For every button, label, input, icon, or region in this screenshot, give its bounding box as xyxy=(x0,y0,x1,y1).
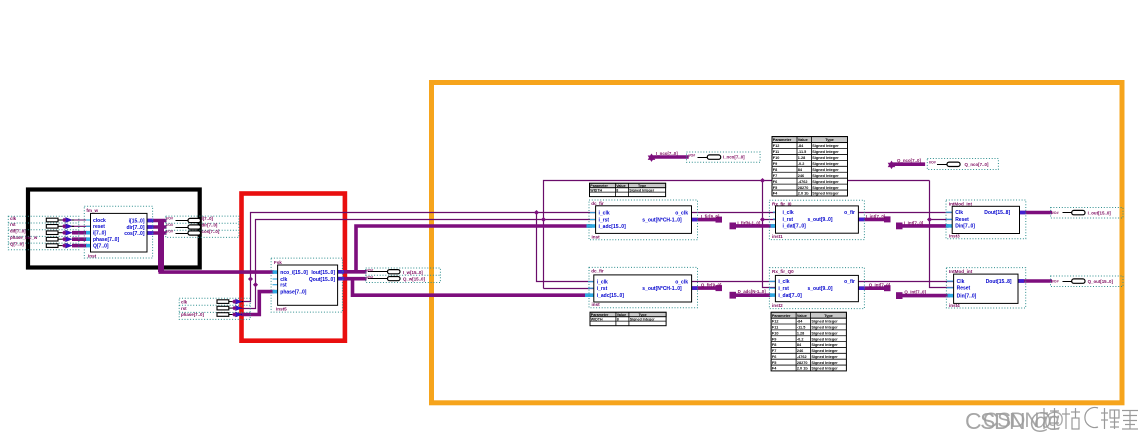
svg-text:phase[7..0]: phase[7..0] xyxy=(181,312,204,317)
svg-text:Signed Integer: Signed Integer xyxy=(811,337,838,341)
svg-text:I/O#: I/O# xyxy=(166,223,173,227)
svg-text:1.28: 1.28 xyxy=(797,331,804,335)
svg-text:I/O#: I/O# xyxy=(367,268,374,272)
svg-text:8: 8 xyxy=(616,188,618,192)
svg-text:rst: rst xyxy=(10,222,16,227)
svg-text:clk: clk xyxy=(181,299,188,304)
svg-text:i_clk: i_clk xyxy=(783,210,794,216)
svg-text:I_w[15..0]: I_w[15..0] xyxy=(403,270,423,275)
svg-text:i_dat[7..0]: i_dat[7..0] xyxy=(783,224,807,230)
svg-text:Q_nco[7..0]: Q_nco[7..0] xyxy=(897,158,921,163)
svg-text:Signed Integer: Signed Integer xyxy=(811,343,838,347)
svg-text:cos[7..0]: cos[7..0] xyxy=(202,229,220,234)
svg-text:Value: Value xyxy=(617,313,626,317)
svg-text:inst4: inst4 xyxy=(949,303,960,308)
svg-text:246: 246 xyxy=(798,174,804,178)
svg-text:F5: F5 xyxy=(773,186,777,190)
svg-text:i_rst: i_rst xyxy=(597,286,608,292)
svg-text:I_out[15..0]: I_out[15..0] xyxy=(1088,210,1112,215)
svg-text:Parameter: Parameter xyxy=(773,138,792,142)
svg-text:I/O#: I/O# xyxy=(367,275,374,279)
svg-text:-84: -84 xyxy=(797,320,803,324)
svg-text:i_clk: i_clk xyxy=(599,211,610,217)
svg-text:Clk: Clk xyxy=(957,279,965,285)
svg-text:Value: Value xyxy=(798,138,808,142)
svg-text:2.0 1b: 2.0 1b xyxy=(797,367,808,371)
svg-text:Signed Integer: Signed Integer xyxy=(812,180,839,184)
svg-text:F6: F6 xyxy=(773,180,777,184)
svg-text:Q_w[15..0]: Q_w[15..0] xyxy=(403,277,425,282)
svg-text:Signed Integer: Signed Integer xyxy=(811,367,838,371)
svg-text:I/O#: I/O# xyxy=(166,217,173,221)
svg-text:i_adc[15..0]: i_adc[15..0] xyxy=(599,224,627,230)
svg-text:Iout[15..0]: Iout[15..0] xyxy=(311,270,335,276)
svg-text:Q_nco[7..0]: Q_nco[7..0] xyxy=(965,162,989,167)
svg-text:I/O#: I/O# xyxy=(929,161,936,165)
svg-text:Rx_fir_I0: Rx_fir_I0 xyxy=(772,201,792,206)
svg-text:I/O#: I/O# xyxy=(689,153,696,157)
svg-text:inst: inst xyxy=(592,302,601,307)
svg-text:s_out[9..0]: s_out[9..0] xyxy=(807,217,832,223)
svg-text:Fsk: Fsk xyxy=(274,260,282,265)
svg-text:phase[7..0]: phase[7..0] xyxy=(280,289,306,295)
svg-text:i_clk: i_clk xyxy=(597,280,608,286)
svg-text:Type: Type xyxy=(638,184,646,188)
svg-text:s_out[N*CH-1..0]: s_out[N*CH-1..0] xyxy=(642,286,682,292)
svg-text:Signed Integer: Signed Integer xyxy=(812,192,839,196)
svg-text:o_clk: o_clk xyxy=(675,211,688,217)
svg-text:Signed Integer: Signed Integer xyxy=(812,168,839,172)
svg-text:inst: inst xyxy=(592,234,601,239)
svg-text:-4762: -4762 xyxy=(797,355,807,359)
svg-text:i[15..0]: i[15..0] xyxy=(129,218,145,224)
svg-text:F9: F9 xyxy=(773,162,777,166)
svg-text:Reset: Reset xyxy=(957,286,971,292)
svg-text:phase[7..0]: phase[7..0] xyxy=(93,237,119,243)
svg-text:-11.5: -11.5 xyxy=(797,326,805,330)
svg-text:-11.5: -11.5 xyxy=(798,150,806,154)
svg-text:Signed Integer: Signed Integer xyxy=(812,174,839,178)
svg-text:Clk: Clk xyxy=(955,210,963,216)
svg-text:Signed Integer: Signed Integer xyxy=(811,331,838,335)
svg-text:Din[7..0]: Din[7..0] xyxy=(957,293,977,299)
svg-text:inst5: inst5 xyxy=(276,307,287,312)
svg-text:F5: F5 xyxy=(772,361,776,365)
svg-text:F9: F9 xyxy=(772,337,776,341)
svg-text:Type: Type xyxy=(639,313,647,317)
svg-text:Signed Integer: Signed Integer xyxy=(812,156,839,160)
svg-text:Parameter: Parameter xyxy=(590,184,608,188)
svg-text:Signed Integer: Signed Integer xyxy=(811,349,838,353)
svg-text:Dout[15..8]: Dout[15..8] xyxy=(986,279,1012,285)
svg-text:i_rst: i_rst xyxy=(778,286,789,292)
svg-text:I/O#: I/O# xyxy=(1052,279,1059,283)
svg-text:i_clk: i_clk xyxy=(778,279,789,285)
svg-text:246: 246 xyxy=(797,349,803,353)
svg-text:Rx_fir_Q0: Rx_fir_Q0 xyxy=(772,269,794,274)
svg-text:i[7..0]: i[7..0] xyxy=(93,231,106,237)
svg-text:F11: F11 xyxy=(773,150,779,154)
svg-text:dif[7..0]: dif[7..0] xyxy=(10,229,26,234)
svg-text:Reset: Reset xyxy=(955,217,969,223)
svg-text:Qout[15..0]: Qout[15..0] xyxy=(309,277,335,283)
svg-text:-84: -84 xyxy=(798,144,804,148)
svg-text:cos[7..0]: cos[7..0] xyxy=(124,231,145,237)
svg-text:dir[7..0]: dir[7..0] xyxy=(202,223,218,228)
svg-text:i_dat[7..0]: i_dat[7..0] xyxy=(778,293,802,299)
svg-text:WIDTH: WIDTH xyxy=(591,317,603,321)
svg-text:dc_fir: dc_fir xyxy=(591,269,604,274)
svg-text:dc_fir: dc_fir xyxy=(591,201,604,206)
svg-text:inst1: inst1 xyxy=(772,234,783,239)
svg-text:F6: F6 xyxy=(772,355,776,359)
svg-text:Signed Integer: Signed Integer xyxy=(812,162,839,166)
svg-text:Value: Value xyxy=(616,184,625,188)
svg-text:Signed Integer: Signed Integer xyxy=(812,150,839,154)
svg-text:reset: reset xyxy=(93,224,105,230)
svg-text:D_adc[N-1..0]: D_adc[N-1..0] xyxy=(738,289,767,294)
svg-text:F11: F11 xyxy=(772,326,778,330)
svg-text:inst2: inst2 xyxy=(772,303,783,308)
svg-text:IntMod_int: IntMod_int xyxy=(949,201,973,206)
svg-text:28270: 28270 xyxy=(797,361,808,365)
svg-text:F8: F8 xyxy=(772,343,776,347)
svg-text:Q_int[7..0]: Q_int[7..0] xyxy=(869,282,891,287)
svg-text:28270: 28270 xyxy=(798,186,809,190)
svg-text:Signed Integer: Signed Integer xyxy=(629,188,655,192)
svg-text:F10: F10 xyxy=(772,331,779,335)
svg-text:s_out[9..0]: s_out[9..0] xyxy=(807,286,832,292)
svg-text:Din[7..0]: Din[7..0] xyxy=(955,224,975,230)
svg-text:o_fir: o_fir xyxy=(844,210,855,216)
svg-text:F8: F8 xyxy=(773,168,777,172)
svg-text:F10: F10 xyxy=(773,156,780,160)
svg-text:F7: F7 xyxy=(772,349,776,353)
svg-text:inst: inst xyxy=(88,253,97,258)
svg-text:Parameter: Parameter xyxy=(772,314,791,318)
svg-text:1.28: 1.28 xyxy=(798,156,805,160)
svg-text:I/O#: I/O# xyxy=(1052,211,1059,215)
svg-text:-0.2: -0.2 xyxy=(797,337,804,341)
svg-text:I_nco[7..0]: I_nco[7..0] xyxy=(723,155,745,160)
svg-text:inst3: inst3 xyxy=(949,234,960,239)
svg-text:Q_fir[9..0]: Q_fir[9..0] xyxy=(701,282,722,287)
svg-text:i_rst: i_rst xyxy=(783,217,794,223)
svg-text:I/O#: I/O# xyxy=(166,229,173,233)
svg-text:i_rst: i_rst xyxy=(599,217,610,223)
svg-text:o_fir: o_fir xyxy=(844,279,855,285)
svg-text:Signed Integer: Signed Integer xyxy=(811,355,838,359)
svg-text:Q_int[7..0]: Q_int[7..0] xyxy=(904,290,926,295)
svg-text:I_fir[9..0]: I_fir[9..0] xyxy=(701,214,720,219)
svg-text:F12: F12 xyxy=(772,320,779,324)
svg-text:I_nco[7..0]: I_nco[7..0] xyxy=(656,151,678,156)
svg-text:fm_w: fm_w xyxy=(86,208,98,213)
svg-text:I_int[7..0]: I_int[7..0] xyxy=(866,214,886,219)
svg-text:WIDTH: WIDTH xyxy=(590,188,602,192)
svg-text:Signed Integer: Signed Integer xyxy=(812,144,839,148)
svg-text:Signed Integer: Signed Integer xyxy=(811,320,838,324)
svg-text:-0.2: -0.2 xyxy=(798,162,805,166)
svg-text:Signed Integer: Signed Integer xyxy=(811,361,838,365)
svg-text:Type: Type xyxy=(824,314,833,318)
svg-text:Signed Integer: Signed Integer xyxy=(630,317,656,321)
svg-text:8: 8 xyxy=(617,317,619,321)
svg-text:phase_inc_w: phase_inc_w xyxy=(10,235,38,240)
svg-text:Q[7..0]: Q[7..0] xyxy=(93,243,109,249)
svg-text:rst: rst xyxy=(181,306,187,311)
svg-text:I_int[7..0]: I_int[7..0] xyxy=(904,220,924,225)
svg-text:Type: Type xyxy=(825,138,834,142)
svg-text:2.0 1b: 2.0 1b xyxy=(798,192,809,196)
svg-text:I_fir[N-1..0]: I_fir[N-1..0] xyxy=(737,220,760,225)
svg-text:o_clk: o_clk xyxy=(675,280,688,286)
svg-text:Signed Integer: Signed Integer xyxy=(811,326,838,330)
svg-text:clk: clk xyxy=(10,216,17,221)
svg-text:IntMod_int: IntMod_int xyxy=(949,269,973,274)
svg-text:F7: F7 xyxy=(773,174,777,178)
svg-text:clock: clock xyxy=(93,218,106,224)
svg-text:Q_out[15..0]: Q_out[15..0] xyxy=(1088,279,1114,284)
svg-text:F12: F12 xyxy=(773,144,780,148)
svg-text:-4762: -4762 xyxy=(798,180,808,184)
svg-text:nco_i[15..0]: nco_i[15..0] xyxy=(280,270,308,276)
svg-text:s_out[N*CH-1..0]: s_out[N*CH-1..0] xyxy=(642,218,682,224)
svg-text:i_adc[15..0]: i_adc[15..0] xyxy=(597,293,625,299)
svg-text:I[7..0]: I[7..0] xyxy=(202,216,214,221)
svg-text:Signed Integer: Signed Integer xyxy=(812,186,839,190)
svg-text:rst: rst xyxy=(280,283,287,289)
svg-text:Parameter: Parameter xyxy=(591,313,609,317)
svg-text:Dout[15..8]: Dout[15..8] xyxy=(984,210,1010,216)
svg-text:Q[7..0]: Q[7..0] xyxy=(10,241,24,246)
svg-text:Value: Value xyxy=(797,314,807,318)
